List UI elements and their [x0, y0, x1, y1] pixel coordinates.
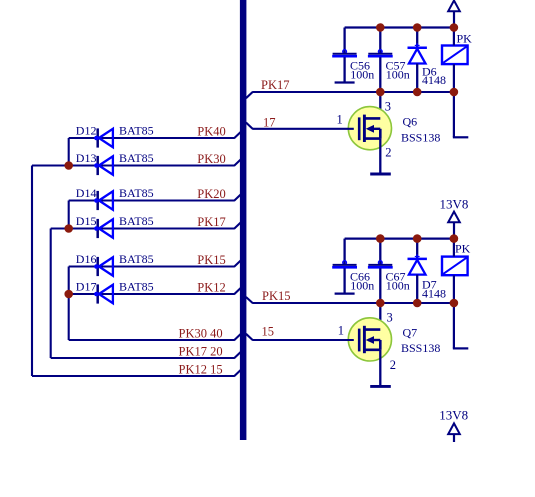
svg-text:2: 2	[390, 358, 396, 372]
svg-text:PK40: PK40	[197, 125, 225, 139]
svg-text:PK17: PK17	[261, 78, 289, 92]
svg-text:BAT85: BAT85	[119, 280, 154, 294]
svg-text:PK15: PK15	[262, 289, 290, 303]
svg-text:13V8: 13V8	[440, 197, 469, 212]
svg-text:2: 2	[385, 146, 391, 160]
svg-text:PK: PK	[455, 242, 471, 256]
svg-text:4148: 4148	[422, 73, 446, 87]
svg-text:PK17 20: PK17 20	[179, 345, 223, 359]
svg-text:D14: D14	[76, 186, 97, 200]
svg-text:PK: PK	[457, 32, 473, 46]
svg-text:15: 15	[262, 325, 275, 339]
svg-text:PK12 15: PK12 15	[179, 363, 223, 377]
svg-text:1: 1	[338, 324, 344, 338]
svg-text:Q6: Q6	[403, 115, 418, 129]
svg-text:100n: 100n	[386, 279, 410, 293]
svg-text:BAT85: BAT85	[119, 252, 154, 266]
svg-text:3: 3	[385, 99, 391, 113]
svg-text:13V8: 13V8	[439, 408, 468, 423]
svg-text:17: 17	[263, 116, 276, 130]
svg-text:PK12: PK12	[197, 281, 225, 295]
svg-text:D16: D16	[76, 252, 97, 266]
svg-text:BAT85: BAT85	[119, 124, 154, 138]
svg-text:BSS138: BSS138	[401, 341, 440, 355]
svg-text:100n: 100n	[350, 68, 374, 82]
svg-text:PK17: PK17	[197, 215, 225, 229]
svg-text:Q7: Q7	[403, 325, 418, 339]
svg-text:100n: 100n	[350, 279, 374, 293]
svg-text:BAT85: BAT85	[119, 214, 154, 228]
svg-text:D15: D15	[76, 214, 97, 228]
svg-text:1: 1	[337, 113, 343, 127]
svg-text:100n: 100n	[386, 68, 410, 82]
svg-text:D12: D12	[76, 124, 97, 138]
svg-text:PK30 40: PK30 40	[179, 327, 223, 341]
svg-text:BAT85: BAT85	[119, 186, 154, 200]
svg-text:BSS138: BSS138	[401, 131, 440, 145]
svg-text:D17: D17	[76, 280, 97, 294]
svg-text:3: 3	[387, 311, 393, 325]
svg-text:PK20: PK20	[197, 187, 225, 201]
svg-text:PK15: PK15	[197, 253, 225, 267]
svg-text:BAT85: BAT85	[119, 151, 154, 165]
svg-text:PK30: PK30	[197, 152, 225, 166]
svg-text:D13: D13	[76, 151, 97, 165]
svg-text:4148: 4148	[422, 287, 446, 301]
